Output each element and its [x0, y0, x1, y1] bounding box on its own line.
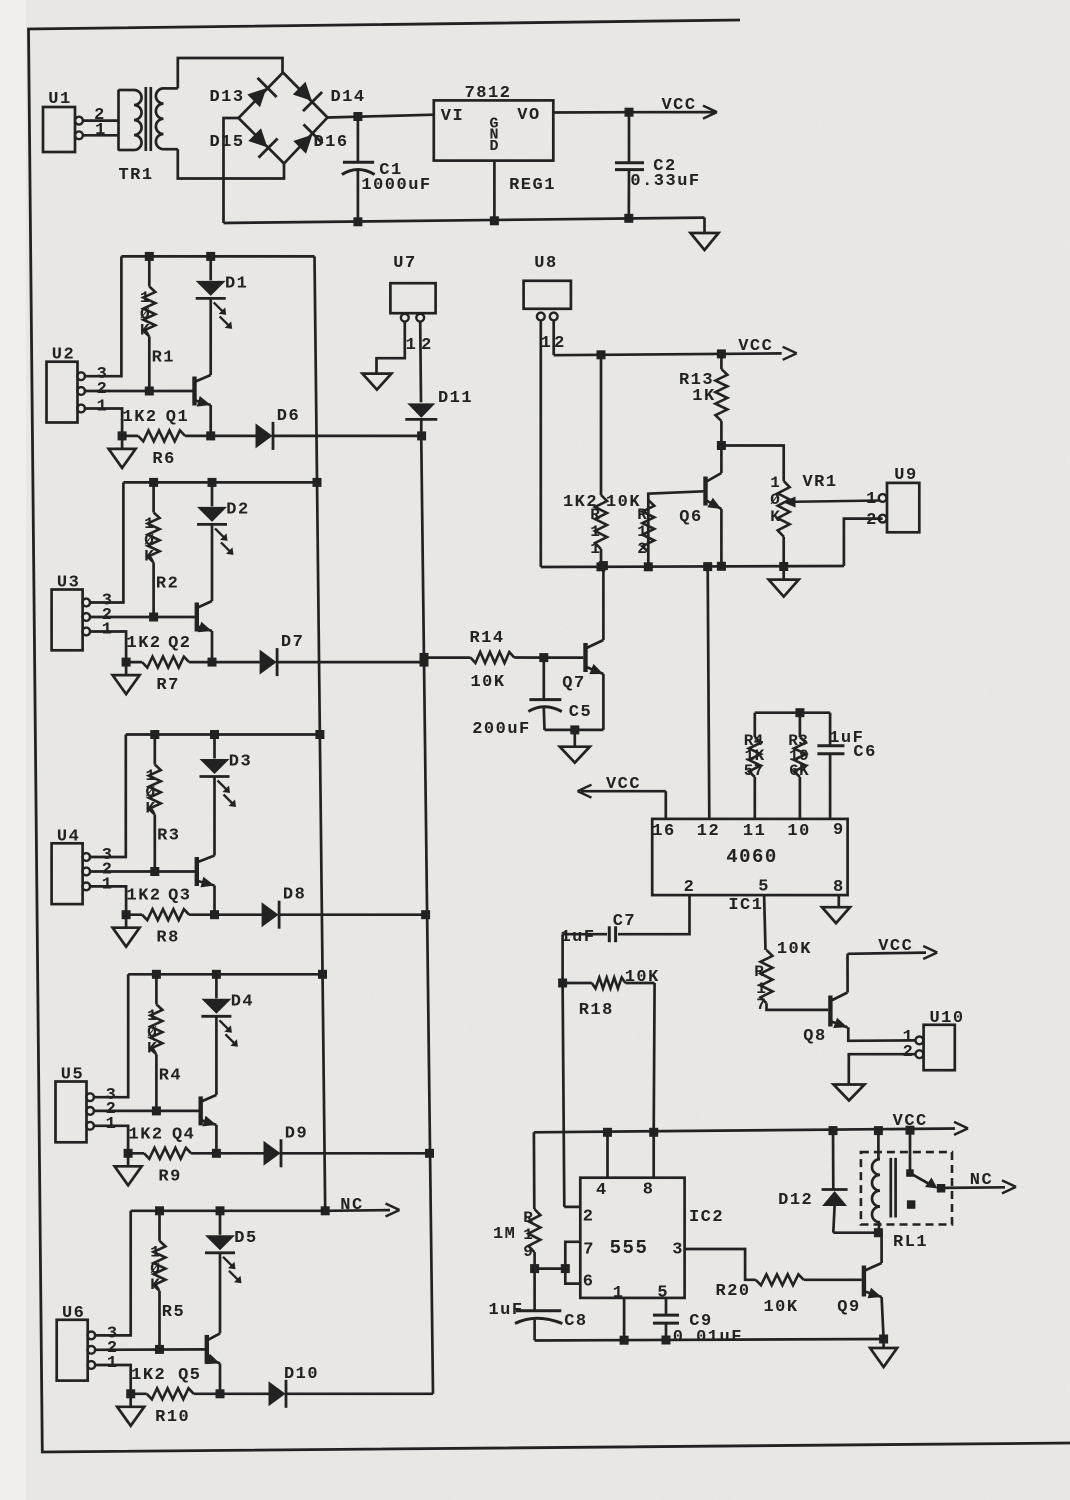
svg-text:1: 1 [770, 474, 780, 492]
wire [93, 1110, 199, 1113]
junction [216, 1389, 225, 1398]
svg-text:D14: D14 [330, 88, 365, 107]
resistor R9 [128, 1148, 216, 1187]
svg-text:U7: U7 [393, 254, 416, 273]
connector U10 [916, 1009, 965, 1070]
wire [278, 661, 424, 664]
junction [206, 252, 215, 261]
capacitor C6 [817, 713, 876, 819]
transistor Q8 [803, 993, 847, 1047]
junction [620, 1336, 629, 1345]
svg-text:VCC: VCC [661, 96, 696, 115]
svg-text:R20: R20 [716, 1282, 751, 1301]
svg-text:2: 2 [903, 1043, 915, 1062]
svg-text:1K2: 1K2 [123, 408, 158, 427]
svg-text:10K: 10K [777, 940, 812, 959]
connector U5 [56, 1066, 95, 1143]
junction [208, 658, 217, 667]
junction [421, 910, 430, 919]
wire vcc line [554, 320, 782, 355]
svg-text:11: 11 [743, 822, 766, 841]
svg-text:2: 2 [866, 511, 878, 530]
junction [145, 387, 154, 396]
svg-text:D6: D6 [277, 407, 300, 426]
svg-text:R10: R10 [155, 1408, 190, 1427]
potentiometer VR1 [770, 473, 880, 567]
wire [216, 1152, 263, 1155]
wire [94, 1348, 205, 1351]
junction [597, 562, 606, 571]
svg-text:1: 1 [95, 121, 107, 140]
svg-text:1M: 1M [493, 1225, 516, 1244]
diode D10 [269, 1365, 320, 1408]
pin 3 label [106, 1086, 118, 1105]
transistor Q6 [679, 473, 721, 527]
junction [561, 1264, 570, 1273]
wire [126, 733, 320, 736]
svg-text:555: 555 [610, 1237, 649, 1259]
junction [321, 1206, 330, 1215]
vcc arrow [893, 1112, 968, 1135]
wire [220, 1392, 269, 1395]
svg-text:1: 1 [107, 1354, 119, 1373]
svg-text:1: 1 [145, 767, 155, 785]
resistor R4 [147, 974, 182, 1111]
connector U2 [47, 346, 86, 423]
wire [219, 1253, 222, 1334]
resistor R8 [126, 909, 214, 948]
svg-text:Q7: Q7 [562, 674, 585, 693]
connector U9 [879, 466, 920, 532]
svg-text:RL1: RL1 [893, 1233, 928, 1252]
transistor Q4 [172, 1095, 216, 1144]
junction [717, 562, 726, 571]
wire [224, 118, 239, 223]
svg-text:2: 2 [97, 380, 109, 399]
junction [210, 910, 219, 919]
junction [874, 1126, 883, 1135]
svg-text:R6: R6 [152, 450, 175, 469]
svg-text:10: 10 [787, 822, 810, 841]
wire [94, 1365, 131, 1394]
svg-text:D15: D15 [209, 133, 244, 152]
svg-text:Q6: Q6 [679, 508, 702, 527]
svg-text:3: 3 [672, 1241, 682, 1260]
svg-text:U4: U4 [57, 827, 80, 846]
pin 2 label [554, 334, 566, 353]
pin 1 label [903, 1028, 915, 1047]
svg-text:57: 57 [744, 762, 764, 780]
svg-text:U6: U6 [62, 1304, 85, 1323]
diode D6 [256, 407, 301, 450]
connector U4 [52, 827, 91, 904]
wire [93, 1126, 128, 1154]
vcc arrow [738, 337, 796, 360]
wire [274, 435, 422, 438]
svg-text:Ø: Ø [770, 491, 780, 509]
svg-text:1: 1 [147, 1007, 157, 1025]
pin 2 label [102, 861, 114, 880]
svg-text:16: 16 [652, 822, 675, 841]
transistor Q7 [562, 640, 603, 693]
wire [89, 886, 126, 914]
pin 1 label [102, 875, 114, 894]
svg-text:R3: R3 [157, 827, 180, 846]
wire [211, 524, 214, 601]
diode D11 [405, 389, 473, 419]
svg-text:1: 1 [102, 875, 114, 894]
svg-text:1: 1 [590, 523, 600, 541]
wire [178, 58, 283, 88]
svg-text:6: 6 [583, 1273, 593, 1292]
ground [362, 374, 391, 390]
connector U8 [524, 254, 571, 320]
wire [209, 405, 212, 436]
wire [211, 435, 256, 438]
junction [599, 561, 608, 570]
svg-text:1: 1 [140, 289, 150, 307]
svg-text:K: K [150, 1276, 160, 1294]
wire [846, 954, 849, 993]
ground [115, 1153, 142, 1185]
junction [124, 1149, 133, 1158]
nc wire [944, 1186, 1005, 1189]
pin 2 label [866, 511, 878, 530]
svg-text:R: R [637, 506, 647, 524]
ground [822, 895, 850, 923]
junction [530, 1264, 539, 1273]
junction [155, 1206, 164, 1215]
nc arrow [325, 1196, 399, 1217]
svg-text:Q4: Q4 [172, 1125, 195, 1144]
resistor R4 [744, 713, 830, 819]
led D3 [200, 735, 253, 808]
diode D7 [260, 633, 305, 676]
junction [126, 1389, 135, 1398]
connector U1 [43, 90, 83, 152]
label 1K2 [129, 1125, 164, 1144]
resistor R20 [716, 1274, 862, 1317]
svg-text:1: 1 [523, 1226, 533, 1244]
svg-text:12: 12 [697, 822, 720, 841]
led D5 [205, 1211, 258, 1284]
junction [490, 216, 499, 225]
pin 2 label [102, 606, 114, 625]
junction [879, 1335, 888, 1344]
svg-text:9: 9 [833, 821, 845, 840]
svg-text:7: 7 [583, 1241, 593, 1260]
svg-text:K: K [144, 547, 154, 565]
junction [216, 1206, 225, 1215]
wire [93, 974, 129, 1097]
svg-text:1: 1 [106, 1115, 118, 1134]
junction [644, 562, 653, 571]
capacitor C5 [472, 658, 592, 739]
svg-text:6K: 6K [789, 762, 809, 780]
regulator REG1 7812 [434, 84, 556, 195]
junction [353, 217, 362, 226]
wire [131, 1209, 326, 1212]
vcc arrow [629, 96, 717, 119]
pin 2 label [421, 336, 433, 355]
pin 1 label [97, 398, 109, 417]
svg-text:D11: D11 [438, 389, 473, 408]
transistor Q9 [837, 1263, 881, 1317]
svg-text:VI: VI [441, 107, 464, 126]
capacitor C2 [615, 112, 701, 218]
pin 2 label [903, 1043, 915, 1062]
svg-text:R7: R7 [156, 676, 179, 695]
svg-text:D16: D16 [313, 133, 348, 152]
ground [113, 915, 140, 947]
junction [906, 1126, 915, 1135]
junction [420, 653, 429, 662]
junction [152, 1106, 161, 1115]
svg-text:Q1: Q1 [166, 408, 189, 427]
svg-text:D4: D4 [231, 992, 254, 1011]
relay RL1 [861, 1130, 952, 1252]
resistor R1 [140, 256, 175, 391]
junction [318, 970, 327, 979]
resistor R11 [563, 355, 607, 567]
wire [602, 566, 605, 640]
wire [213, 777, 216, 856]
svg-text:REG1: REG1 [509, 176, 556, 195]
wire [209, 298, 212, 375]
vcc arrow [848, 937, 938, 959]
junction [717, 349, 726, 358]
wire [239, 73, 284, 119]
junction [603, 1128, 612, 1137]
svg-text:8: 8 [833, 878, 845, 897]
diode D8 [262, 886, 307, 929]
pin 1 label [102, 621, 114, 640]
resistor R6 [122, 430, 211, 469]
pin 1 label [107, 1354, 119, 1373]
svg-text:U3: U3 [57, 574, 80, 593]
svg-text:1K2: 1K2 [127, 887, 162, 906]
svg-text:1K: 1K [692, 387, 715, 406]
wire [84, 409, 122, 436]
wire vcc rail [534, 1129, 955, 1133]
wire [287, 1392, 433, 1395]
pin 2 label [94, 106, 106, 125]
wire [123, 481, 317, 484]
svg-text:K: K [140, 321, 150, 339]
wire [535, 1267, 566, 1270]
wire [215, 1016, 218, 1095]
led D2 [197, 482, 250, 555]
led D1 [196, 256, 249, 329]
svg-text:U9: U9 [894, 466, 917, 485]
svg-text:1: 1 [541, 334, 553, 353]
wire pin4 [606, 1132, 609, 1177]
wire [215, 913, 262, 916]
svg-text:NC: NC [970, 1171, 993, 1190]
junction [420, 658, 429, 667]
svg-text:C6: C6 [853, 743, 876, 762]
wire [283, 73, 328, 118]
pin 3 label [102, 592, 114, 611]
resistor R13 [679, 354, 727, 446]
connector U7 [390, 254, 435, 322]
wire [602, 674, 605, 730]
wire pin12 [708, 567, 710, 819]
svg-text:1000uF: 1000uF [361, 176, 431, 195]
svg-text:D1: D1 [225, 274, 248, 293]
svg-text:D8: D8 [283, 886, 306, 905]
svg-text:1K2: 1K2 [129, 1125, 164, 1144]
capacitor C1 [342, 117, 432, 223]
junction [118, 431, 127, 440]
diode D9 [264, 1124, 309, 1167]
pin 1 label [106, 1115, 118, 1134]
svg-text:R18: R18 [579, 1001, 614, 1020]
ground [109, 436, 136, 468]
svg-text:10K: 10K [470, 673, 505, 692]
svg-text:R8: R8 [156, 929, 179, 948]
diode D15 [209, 128, 277, 157]
resistor R7 [126, 657, 212, 696]
junction [150, 867, 159, 876]
svg-text:D: D [489, 138, 498, 155]
svg-text:D7: D7 [281, 633, 304, 652]
wire [215, 1125, 218, 1153]
svg-text:U5: U5 [61, 1066, 84, 1085]
ground [113, 662, 140, 694]
pin 3 label [102, 846, 114, 865]
wire pins 7-6 tie [565, 1242, 580, 1284]
svg-text:1K2: 1K2 [127, 634, 162, 653]
wire right rail [315, 256, 326, 1210]
svg-text:U2: U2 [52, 346, 75, 365]
svg-text:VR1: VR1 [802, 473, 837, 492]
svg-text:Q8: Q8 [803, 1027, 826, 1046]
svg-text:D10: D10 [284, 1365, 319, 1384]
junction [874, 1228, 883, 1237]
capacitor C8 [488, 1269, 587, 1341]
wire [545, 729, 604, 732]
svg-text:1: 1 [637, 523, 647, 541]
svg-text:2: 2 [637, 540, 647, 558]
junction [208, 478, 217, 487]
junction [152, 970, 161, 979]
pin 3 label [97, 365, 109, 384]
svg-text:Q2: Q2 [168, 634, 191, 653]
wire [844, 519, 883, 566]
svg-text:1: 1 [613, 1284, 623, 1303]
wire [282, 1152, 430, 1155]
wire [539, 320, 542, 567]
svg-text:200uF: 200uF [472, 720, 531, 739]
junction [150, 730, 159, 739]
svg-text:2: 2 [684, 878, 696, 897]
svg-text:VCC: VCC [606, 775, 641, 794]
svg-text:TR1: TR1 [118, 166, 153, 185]
svg-text:R5: R5 [162, 1303, 185, 1322]
svg-text:0.33uF: 0.33uF [630, 172, 700, 191]
wire [89, 870, 195, 873]
junction [313, 478, 322, 487]
junction [155, 1345, 164, 1354]
junction [206, 431, 215, 440]
wire pin3 [685, 1249, 756, 1280]
transistor Q5 [178, 1333, 220, 1384]
nc arrow [970, 1171, 1016, 1193]
ground [560, 730, 590, 763]
capacitor C9 [653, 1298, 743, 1347]
wire bus [421, 434, 433, 1394]
connector U6 [57, 1304, 96, 1381]
wire [377, 321, 405, 373]
diode D14 [293, 82, 366, 111]
junction [662, 1336, 671, 1345]
svg-text:VO: VO [517, 106, 540, 125]
ground [769, 567, 799, 597]
svg-text:C8: C8 [564, 1312, 587, 1331]
svg-text:D5: D5 [234, 1229, 257, 1248]
junction [145, 252, 154, 261]
svg-text:7: 7 [756, 996, 766, 1014]
wire [94, 1211, 131, 1336]
svg-text:IC1: IC1 [728, 896, 763, 915]
wire [493, 161, 496, 221]
junction [315, 730, 324, 739]
svg-text:1uF: 1uF [488, 1301, 523, 1320]
wire [721, 446, 783, 482]
svg-text:1: 1 [590, 540, 600, 558]
svg-text:R14: R14 [469, 629, 504, 648]
svg-text:5: 5 [758, 878, 770, 897]
label 1K2 [131, 1366, 166, 1385]
junction [149, 478, 158, 487]
junction [210, 730, 219, 739]
svg-text:D12: D12 [778, 1191, 813, 1210]
junction [703, 562, 712, 571]
svg-text:8: 8 [643, 1181, 655, 1200]
transistor Q3 [168, 856, 214, 906]
svg-text:K: K [145, 800, 155, 818]
svg-text:2: 2 [554, 334, 566, 353]
wire [178, 149, 284, 178]
pin 1 label [406, 336, 418, 355]
wire [664, 791, 667, 819]
wire [89, 632, 126, 663]
connector U3 [52, 574, 91, 651]
wire [89, 616, 195, 619]
resistor R10 [131, 1388, 220, 1427]
resistor R2 [144, 482, 179, 617]
wire [83, 119, 119, 122]
wire ground rail [224, 218, 705, 223]
wire [544, 656, 584, 659]
wire [419, 321, 422, 402]
resistor R14 [424, 629, 544, 692]
transistor Q1 [166, 375, 211, 427]
diode D16 [293, 124, 348, 153]
label 1K2 [127, 634, 162, 653]
pin 1 label [866, 490, 878, 509]
svg-text:U10: U10 [929, 1009, 964, 1028]
svg-text:R: R [590, 506, 600, 524]
wire [561, 934, 564, 983]
svg-text:4: 4 [596, 1181, 608, 1200]
wire [563, 983, 581, 1207]
wire [128, 973, 322, 976]
wire [89, 735, 126, 858]
wire [121, 255, 314, 258]
svg-text:Q3: Q3 [168, 887, 191, 906]
